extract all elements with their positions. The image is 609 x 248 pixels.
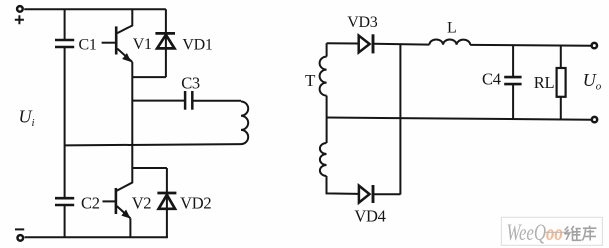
svg-text:RL: RL [534,73,555,92]
svg-text:C4: C4 [482,70,501,89]
svg-text:V2: V2 [132,194,152,213]
svg-text:VD1: VD1 [182,37,213,54]
svg-text:C1: C1 [79,36,97,53]
svg-text:VD4: VD4 [354,207,385,226]
svg-text:Uo: Uo [583,70,602,93]
svg-text:C3: C3 [181,73,200,92]
svg-text:WeeQoo: WeeQoo [507,221,563,246]
svg-text:L: L [447,20,456,37]
svg-text:VD2: VD2 [180,194,211,213]
svg-text:V1: V1 [133,36,152,53]
svg-text:Ui: Ui [19,107,35,130]
svg-text:VD3: VD3 [347,14,378,31]
svg-text:T: T [305,71,316,90]
svg-text:C2: C2 [81,193,100,212]
